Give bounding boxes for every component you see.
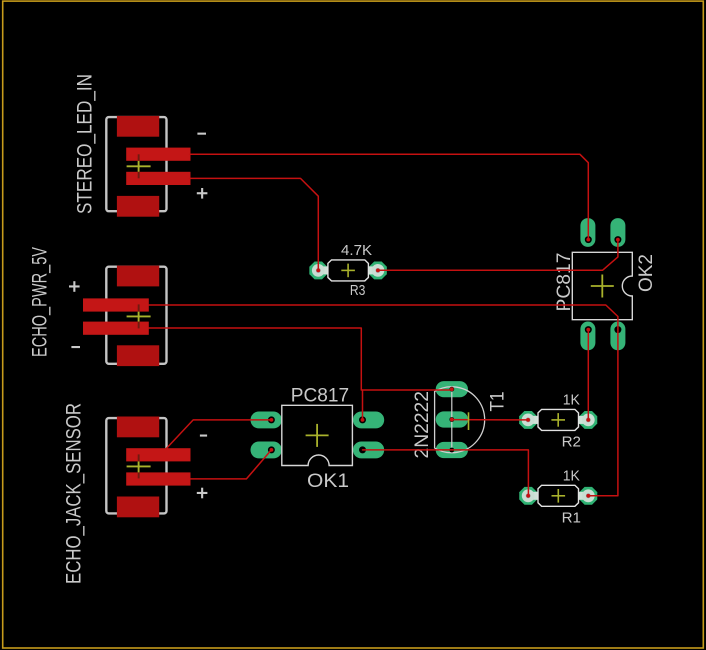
optocoupler OK2 pads — [580, 218, 625, 350]
connector J1 origin cross — [127, 154, 151, 178]
connector J1 label plus — [197, 188, 208, 199]
svg-text:1K: 1K — [563, 467, 580, 484]
connector J1 STEREO_LED_IN outline — [106, 117, 166, 211]
wire net4 PWR pin1 to OK2 pad4 to R1 right — [149, 305, 618, 496]
transistor T1 holes — [449, 387, 454, 453]
connector J2 label plus — [69, 281, 80, 292]
wire net1 STEREO pin1 to OK2 pad1 — [190, 154, 589, 239]
resistor R1 pad right — [578, 487, 598, 505]
optocoupler OK2 outline with notch — [572, 252, 632, 319]
resistor R3 origin cross — [341, 264, 355, 278]
resistor R2 origin cross — [551, 413, 565, 427]
optocoupler OK2 origin cross — [591, 275, 614, 298]
optocoupler OK1 holes — [268, 416, 366, 453]
wire net6 PWR pin2 to T1 collector — [149, 328, 452, 390]
transistor T1 pin line — [451, 389, 453, 450]
wire net10 JACK pin2 to OK1 pin2 — [191, 450, 272, 479]
wire net3 R3 right to OK2 pad2 — [378, 240, 618, 271]
connector J2 ECHO_PWR_5V outline — [106, 267, 166, 364]
svg-text:2N2222: 2N2222 — [412, 391, 433, 459]
svg-text:OK1: OK1 — [307, 471, 349, 492]
resistor R1 body — [538, 485, 579, 506]
connector J2 cross arm over pads — [138, 304, 140, 328]
resistor R3 body — [328, 260, 369, 281]
optocoupler OK1 origin cross — [306, 424, 329, 447]
connector J2 label minus — [71, 346, 80, 348]
resistor R1 pad left — [519, 487, 539, 505]
connector J3 origin cross — [127, 454, 151, 478]
svg-text:STEREO_LED_IN: STEREO_LED_IN — [74, 74, 97, 214]
connector J1 pad bar pin2 — [126, 172, 190, 185]
optocoupler OK1 outline with notch — [282, 405, 353, 465]
connector J3 pad bottom — [117, 497, 159, 518]
svg-text:R2: R2 — [562, 433, 581, 450]
svg-text:PC817: PC817 — [554, 253, 575, 312]
connector J2 pad bar pin1 — [83, 298, 149, 311]
svg-text:ECHO_PWR_5V: ECHO_PWR_5V — [29, 247, 52, 357]
svg-text:R3: R3 — [350, 282, 366, 299]
resistor R3 pad left — [309, 261, 329, 279]
transistor T1 origin tick — [468, 412, 470, 430]
optocoupler OK1 pads — [251, 412, 385, 459]
svg-text:OK2: OK2 — [636, 254, 657, 292]
connector J1 pad top — [117, 116, 159, 137]
connector J2 origin cross — [127, 304, 151, 328]
connector J2 pad top — [117, 266, 159, 287]
connector J1 pad bottom — [117, 196, 159, 217]
connector J3 ECHO_JACK_SENSOR outline — [106, 418, 166, 513]
resistor R2 body — [538, 409, 579, 430]
resistor R2 pad left — [519, 411, 539, 429]
connector J1 label minus — [197, 133, 206, 135]
connector J3 pad bar pin1 — [126, 448, 190, 461]
connector J3 cross arm over pads — [138, 454, 140, 478]
transistor T1 pads — [436, 381, 468, 458]
resistor R3 pad right — [367, 261, 387, 279]
wire net8 OK1 pin3 through T1 emitter to R1 left — [363, 450, 529, 496]
connector J2 pad bar pin2 — [83, 322, 149, 335]
wire net2 STEREO pin2 to R3 left — [190, 178, 319, 270]
optocoupler OK2 holes — [585, 236, 622, 333]
trace endpoint dots — [270, 238, 620, 498]
connector J3 label minus — [200, 435, 207, 437]
connector J1 pad bar pin1 — [126, 148, 190, 161]
connector J3 pad bar pin2 — [126, 472, 190, 485]
wire net5 OK2 pad3 to R2 right — [587, 330, 589, 420]
traces top copper — [149, 154, 618, 496]
svg-text:4.7K: 4.7K — [341, 242, 372, 259]
svg-text:R1: R1 — [562, 509, 581, 526]
svg-text:T1: T1 — [488, 392, 509, 412]
wire net9 JACK pin1 to OK1 pin1 — [166, 420, 271, 449]
connector J2 pad bottom — [117, 345, 159, 366]
svg-text:1K: 1K — [563, 392, 580, 409]
connector J3 pad top — [117, 417, 159, 438]
connector J1 cross arm over pads — [138, 154, 140, 178]
resistor R1 origin cross — [552, 489, 566, 503]
connector J3 label plus — [197, 488, 208, 499]
resistor R2 pad right — [578, 411, 598, 429]
wire net7 T1 base to R2 left — [452, 419, 528, 421]
transistor T1 outline TO-92 — [435, 387, 485, 453]
svg-text:ECHO_JACK_SENSOR: ECHO_JACK_SENSOR — [63, 403, 86, 584]
svg-text:PC817: PC817 — [291, 386, 349, 407]
wire net6 stub OK1 pin4 — [362, 390, 364, 420]
